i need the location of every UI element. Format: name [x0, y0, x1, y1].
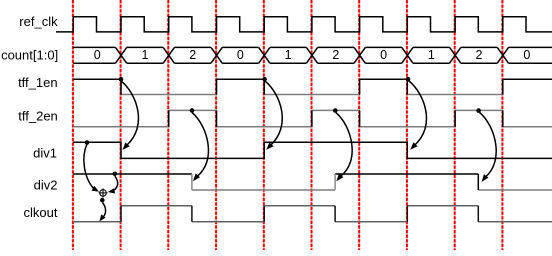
- clock edge marker line 1 (red dashed): [72, 0, 74, 250]
- clock edge marker line 5 (red dashed): [263, 0, 265, 250]
- clock edge marker line 8 (red dashed): [406, 0, 408, 250]
- dot div1 tap: [85, 140, 90, 145]
- dot tff_1en sample 3: [406, 77, 411, 82]
- bus count[1:0] rails: [73, 47, 552, 63]
- bus count[1:0] value crossings: [116, 47, 509, 63]
- signal div2 low segments (gray): [192, 189, 552, 191]
- signal tff_1en low segments (gray): [121, 94, 503, 96]
- signal tff_2en high segments (gray): [169, 109, 503, 111]
- svg-text:2: 2: [476, 48, 483, 62]
- svg-text:clkout: clkout: [24, 205, 58, 220]
- svg-text:1: 1: [428, 48, 435, 62]
- dot tff_2en sample 1: [190, 108, 195, 113]
- signal div2 transition edges: [192, 174, 335, 190]
- arrow tff_2en to div2 rise: [336, 113, 352, 182]
- arrow xor to clkout: [99, 203, 105, 222]
- svg-text:tff_2en: tff_2en: [18, 109, 58, 124]
- signal div2 high segments (black): [73, 173, 478, 175]
- svg-text:2: 2: [332, 48, 339, 62]
- signal clkout horizontal segments (gray): [73, 206, 552, 222]
- svg-text:0: 0: [94, 48, 101, 62]
- svg-text:div1: div1: [33, 146, 57, 161]
- clock edge marker line 2 (red dashed): [120, 0, 122, 250]
- signal clkout transition edges (black): [121, 206, 478, 222]
- signal tff_1en transition edges: [121, 79, 503, 94]
- svg-text:count[1:0]: count[1:0]: [1, 48, 58, 63]
- dot tff_2en sample 3: [476, 108, 481, 113]
- svg-text:0: 0: [237, 48, 244, 62]
- signal tff_2en low segments (gray): [73, 126, 552, 128]
- arrow tff_2en to div2 fall: [192, 113, 208, 182]
- svg-text:2: 2: [189, 48, 196, 62]
- arrow tff_1en to div1 rise: [265, 81, 282, 150]
- clock edge marker line 4 (red dashed): [215, 0, 217, 250]
- arrow tff_2en to div2 fall 2: [480, 113, 497, 182]
- arrow div2 to xor: [108, 176, 118, 193]
- dot tff_2en sample 2: [333, 108, 338, 113]
- svg-text:ref_clk: ref_clk: [19, 14, 58, 29]
- svg-text:tff_1en: tff_1en: [18, 75, 58, 90]
- svg-text:0: 0: [380, 48, 387, 62]
- clock edge marker line 6 (red dashed): [311, 0, 313, 250]
- clock edge marker line 3 (red dashed): [167, 0, 169, 250]
- xor symbol (circled plus): [99, 188, 108, 197]
- signal tff_1en high segments (black): [73, 78, 552, 80]
- dot xor output: [100, 198, 105, 203]
- signal div1 waveform (black): [73, 142, 552, 158]
- svg-text:0: 0: [523, 48, 530, 62]
- clock edge marker line 9 (red dashed): [454, 0, 456, 250]
- signal ref_clk waveform: [56, 17, 552, 32]
- arrow div1 to xor: [84, 144, 99, 192]
- dot tff_1en sample 2: [262, 77, 267, 82]
- clock edge marker line 10 (red dashed): [501, 0, 503, 250]
- clock edge marker line 7 (red dashed): [358, 0, 360, 250]
- dot div2 tap: [113, 172, 118, 177]
- arrow tff_1en to div1 fall: [121, 81, 138, 150]
- svg-text:1: 1: [142, 48, 149, 62]
- svg-text:div2: div2: [34, 178, 58, 193]
- arrow tff_1en to div1 fall 2: [409, 81, 426, 150]
- signal div2 falling edge at third toggle: [477, 174, 479, 190]
- signal tff_2en transition edges: [169, 110, 503, 126]
- dot tff_1en sample 1: [119, 77, 124, 82]
- svg-text:1: 1: [285, 48, 292, 62]
